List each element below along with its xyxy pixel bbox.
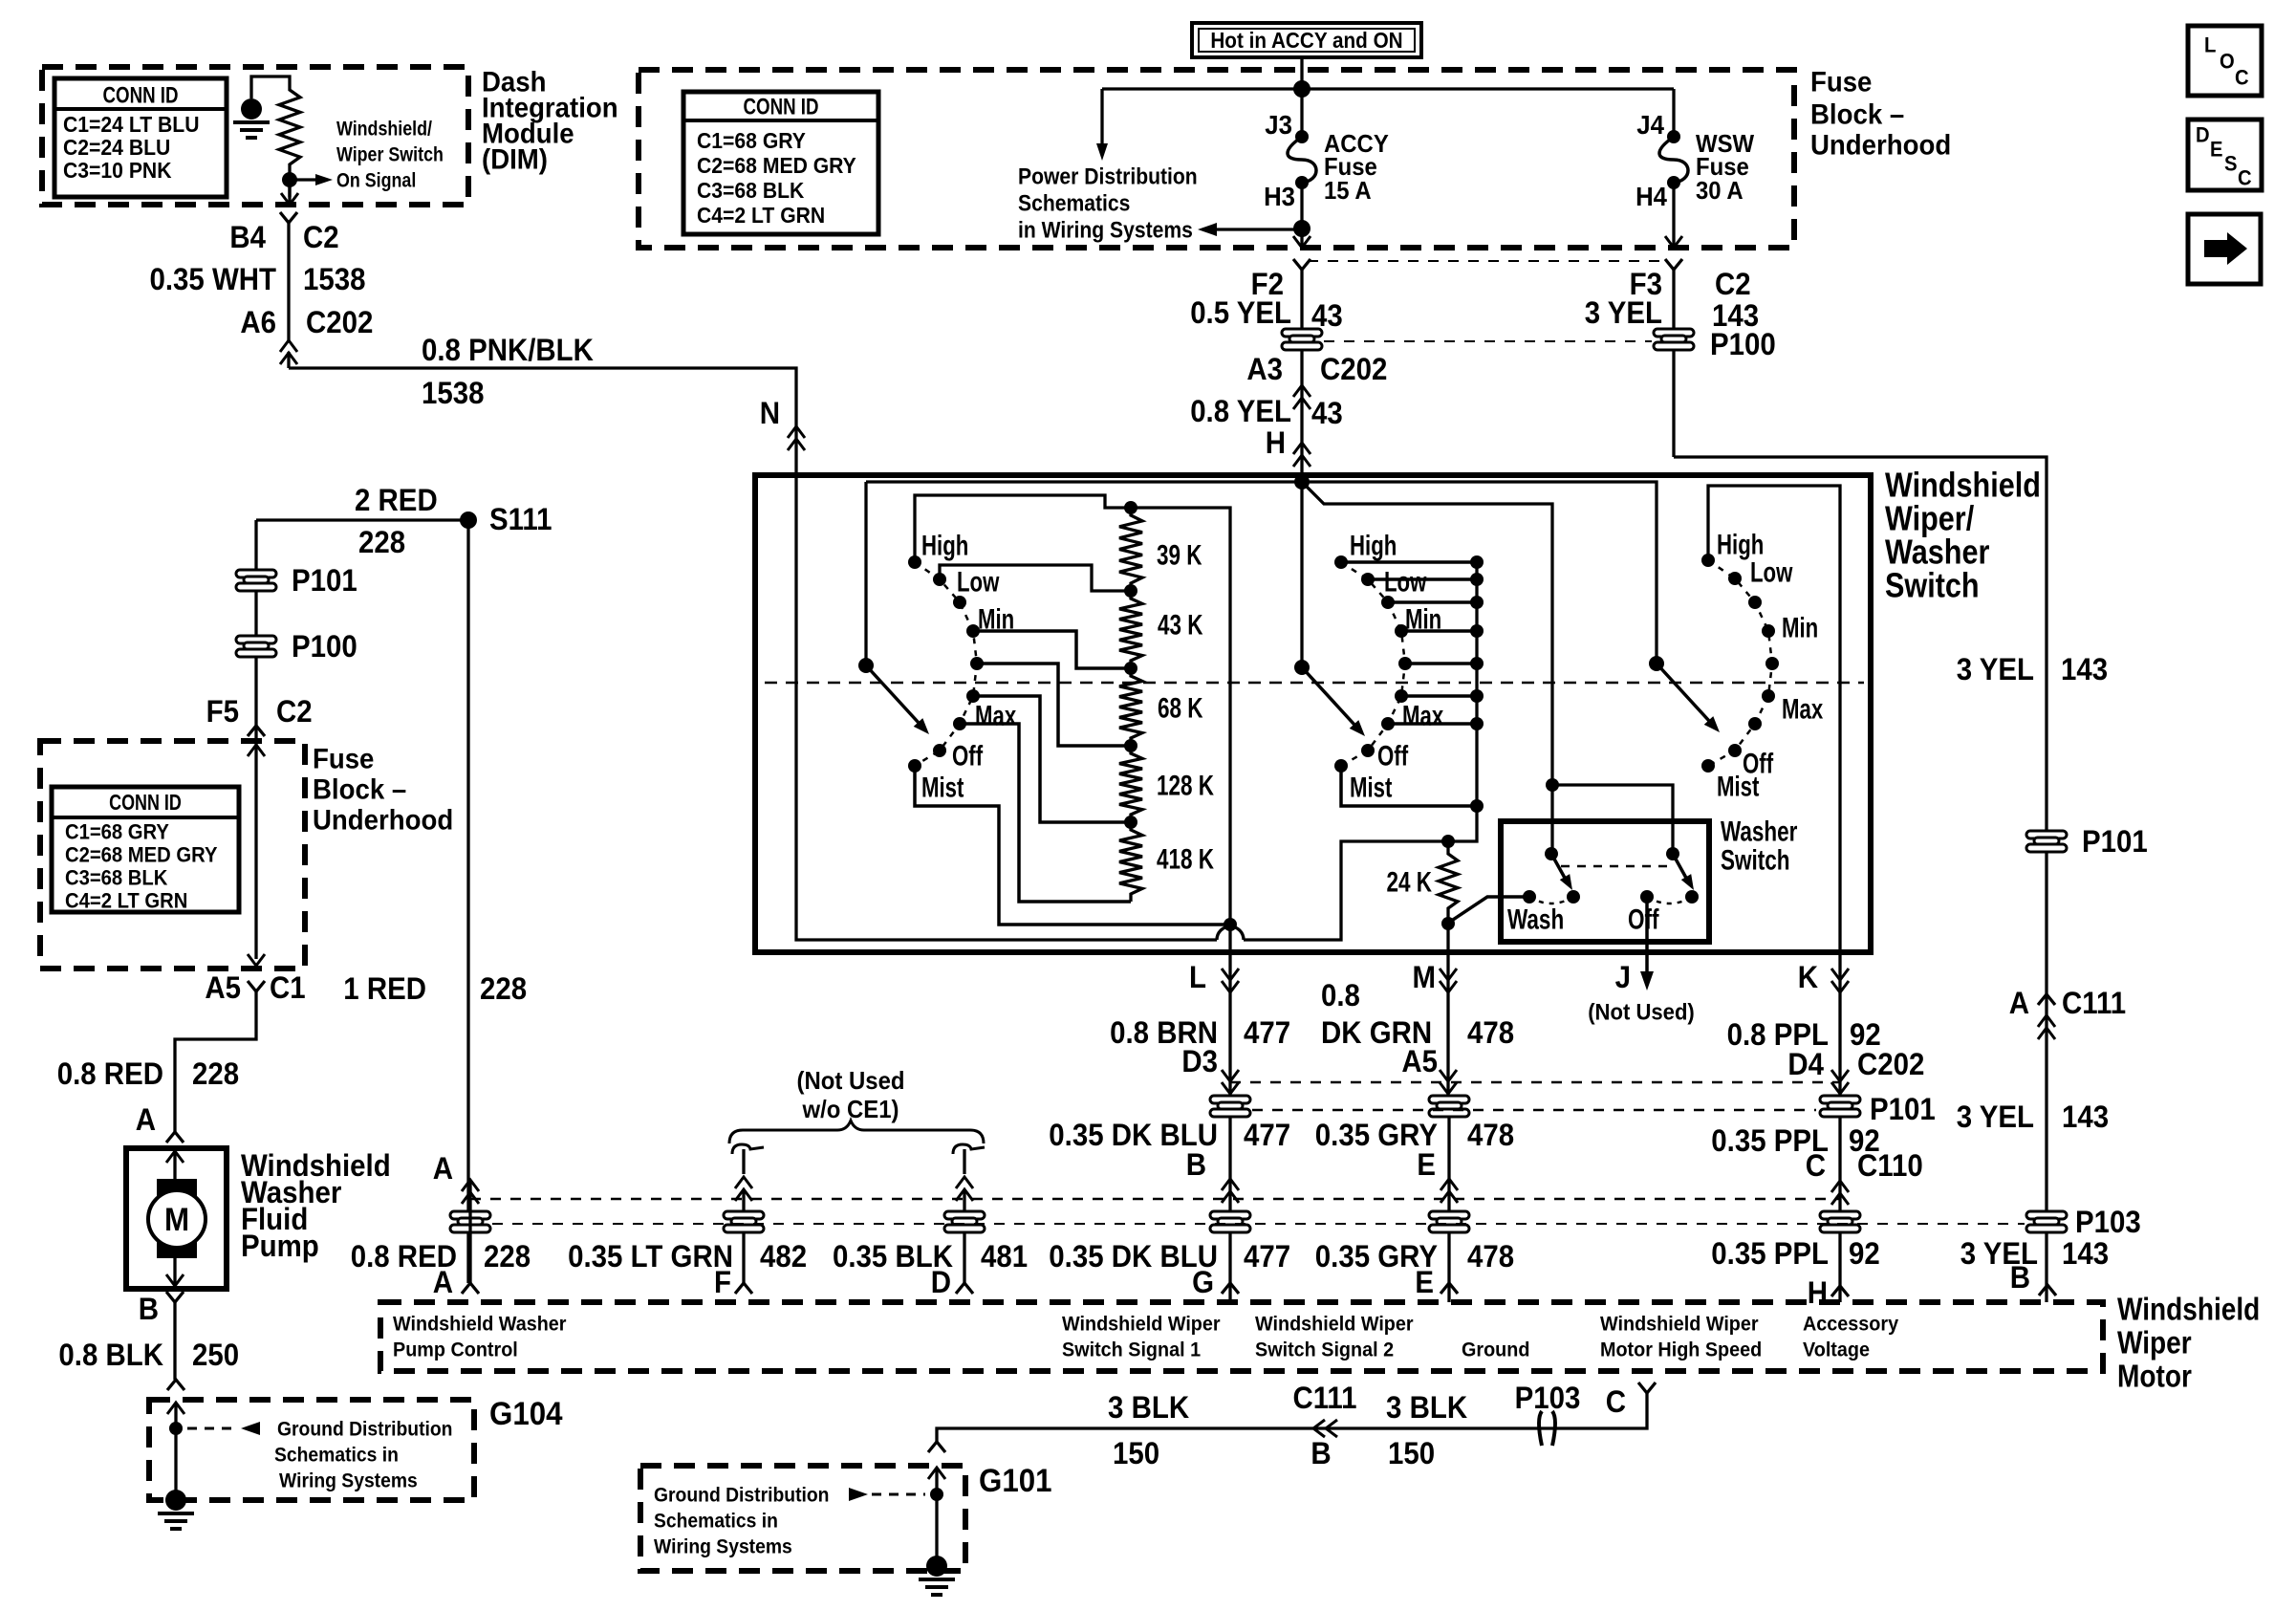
double chevron at switch entry H	[1293, 443, 1310, 454]
svg-text:A: A	[136, 1102, 156, 1137]
svg-text:G101: G101	[979, 1463, 1052, 1499]
svg-text:477: 477	[1244, 1118, 1290, 1152]
svg-text:C202: C202	[306, 305, 373, 339]
svg-text:(Not Used: (Not Used	[797, 1066, 905, 1095]
arrow to On Signal label	[290, 178, 319, 181]
grommet P103 G wire	[1210, 1211, 1250, 1232]
svg-text:P100: P100	[292, 629, 357, 664]
wire A washer pump between rows	[468, 1180, 471, 1283]
washer contact right mid	[1685, 890, 1699, 903]
fork B at motor box	[2039, 1285, 2056, 1295]
svg-text:Pump Control: Pump Control	[393, 1339, 518, 1361]
svg-text:E: E	[1415, 1265, 1434, 1299]
svg-text:Wiring Systems: Wiring Systems	[654, 1535, 792, 1557]
double chevron C202 mate	[1293, 385, 1310, 397]
svg-text:O: O	[2220, 50, 2235, 74]
svg-text:Max: Max	[1402, 701, 1443, 732]
svg-text:C1=68 GRY: C1=68 GRY	[65, 820, 169, 844]
svg-text:Off: Off	[1377, 741, 1409, 773]
svg-text:High: High	[1350, 531, 1397, 562]
dashed pointer left arrow G104	[187, 1427, 237, 1430]
wire pole feed rotary 1	[864, 482, 867, 665]
svg-text:P100: P100	[1710, 327, 1776, 361]
svg-text:1538: 1538	[422, 376, 485, 410]
svg-text:Wiper Switch: Wiper Switch	[336, 143, 444, 165]
contact bar dots rotary 2	[1470, 555, 1484, 569]
ground symbol G101	[926, 1556, 947, 1577]
svg-text:Schematics in: Schematics in	[654, 1510, 778, 1532]
svg-text:Switch Signal 1: Switch Signal 1	[1062, 1339, 1201, 1361]
svg-text:1 RED: 1 RED	[343, 971, 426, 1006]
svg-text:P101: P101	[2082, 824, 2148, 859]
wire ladder top to L bar	[1131, 508, 1230, 952]
diagonal to washer feed	[1302, 482, 1552, 854]
Fuse Block Underhood dashed box (left)	[40, 741, 305, 969]
svg-text:M: M	[1413, 960, 1437, 994]
resistor 43 K	[1119, 591, 1142, 668]
svg-text:B: B	[1310, 1436, 1331, 1470]
svg-text:P101: P101	[1870, 1092, 1936, 1126]
CONN ID table (fuse block left)	[52, 787, 239, 912]
svg-text:C3=10 PNK: C3=10 PNK	[63, 158, 172, 183]
svg-text:Mist: Mist	[1350, 773, 1392, 804]
dashed line P103 row	[492, 1223, 2025, 1225]
junction dot H bus	[1294, 474, 1310, 490]
svg-text:S: S	[2224, 152, 2238, 176]
grommet P101 left	[236, 570, 276, 591]
wire resistor to node	[288, 172, 291, 197]
svg-text:C2: C2	[303, 220, 339, 254]
washer contact Off	[1640, 890, 1654, 903]
wire lower contact to node4	[973, 696, 1131, 822]
svg-text:L: L	[1189, 960, 1206, 994]
hop over L wire	[1217, 926, 1244, 940]
chevrons C111	[2038, 1015, 2055, 1027]
node dot 4	[1124, 816, 1137, 829]
svg-text:Wash: Wash	[1507, 904, 1564, 936]
F stub wire	[742, 1149, 745, 1174]
svg-text:Washer: Washer	[1721, 816, 1798, 848]
svg-text:3 BLK: 3 BLK	[1386, 1390, 1467, 1425]
svg-text:C2=68 MED GRY: C2=68 MED GRY	[697, 153, 856, 178]
dashed line C2 between F2 and F3	[1308, 260, 1668, 262]
resistor 418 K	[1119, 822, 1142, 902]
arrow left to schematics label	[1206, 228, 1302, 230]
svg-text:Wiring Systems: Wiring Systems	[279, 1469, 418, 1491]
svg-text:C2=68 MED GRY: C2=68 MED GRY	[65, 843, 218, 867]
svg-text:Pump: Pump	[241, 1229, 319, 1263]
svg-text:B4: B4	[229, 220, 266, 254]
svg-text:F5: F5	[206, 694, 239, 729]
washer switch box	[1501, 821, 1709, 942]
arrow into fuse block F5	[248, 745, 265, 756]
wire F3 to P100	[1672, 270, 1675, 329]
svg-text:P103: P103	[1515, 1381, 1581, 1415]
svg-text:478: 478	[1467, 1239, 1514, 1274]
wire Max to ladder bottom	[960, 724, 1131, 902]
dashed line C110 row	[470, 1198, 1840, 1201]
resistor 39 K	[1119, 508, 1142, 591]
svg-text:Motor High Speed: Motor High Speed	[1600, 1339, 1762, 1361]
ground symbol G104	[165, 1490, 186, 1511]
fork below DIM (C2 pin B4)	[280, 212, 297, 223]
junction 24K top	[1441, 835, 1455, 848]
wire Hot box to J3	[1300, 57, 1303, 137]
svg-text:Max: Max	[975, 701, 1016, 732]
junction dot H3	[1293, 220, 1310, 237]
double chevron C111 pointing left	[1313, 1420, 1325, 1437]
svg-text:Windshield: Windshield	[2117, 1292, 2260, 1327]
svg-text:0.8 YEL: 0.8 YEL	[1190, 394, 1291, 428]
svg-text:150: 150	[1388, 1436, 1435, 1470]
ground symbol inside DIM	[241, 98, 262, 120]
fork H at motor box	[1831, 1286, 1849, 1296]
svg-text:C: C	[2235, 66, 2249, 90]
svg-text:482: 482	[760, 1239, 807, 1274]
svg-text:H3: H3	[1264, 182, 1295, 211]
wire M output	[1446, 916, 1449, 952]
svg-text:250: 250	[192, 1338, 239, 1372]
svg-text:3 YEL: 3 YEL	[1585, 295, 1662, 330]
rotary switch 3 (high speed) pole	[1649, 656, 1664, 671]
svg-text:C4=2 LT GRN: C4=2 LT GRN	[65, 889, 187, 913]
wire N inside switch box	[796, 475, 1217, 940]
grommet P101 right side	[2026, 831, 2067, 852]
fork F3 below fuse block	[1665, 259, 1682, 270]
G104 dashed box	[149, 1400, 474, 1500]
wire H3 down	[1300, 183, 1303, 236]
grommet P100 on F2 wire	[1300, 329, 1303, 350]
junction dot G104	[169, 1422, 183, 1435]
D stub wire	[963, 1149, 965, 1174]
svg-text:A5: A5	[1401, 1044, 1438, 1078]
D stub below	[963, 1233, 965, 1283]
svg-text:C1: C1	[270, 970, 306, 1005]
svg-text:G104: G104	[489, 1396, 563, 1432]
svg-text:43: 43	[1311, 396, 1343, 430]
svg-text:15 A: 15 A	[1324, 176, 1372, 205]
svg-text:Schematics: Schematics	[1018, 190, 1130, 216]
Dash Integration Module (DIM) dashed box	[42, 67, 468, 205]
svg-text:143: 143	[2062, 1099, 2109, 1134]
wire B4 to C202	[287, 223, 290, 340]
wire L output	[1228, 952, 1231, 1101]
wire Mist rotary2 to bar	[1341, 766, 1477, 806]
svg-text:C: C	[1606, 1384, 1626, 1419]
fork at pump terminal A	[166, 1132, 184, 1143]
arrow at fuse block exit F2	[1293, 236, 1310, 248]
svg-text:C4=2 LT GRN: C4=2 LT GRN	[697, 203, 825, 228]
fork at G104	[167, 1380, 184, 1390]
washer dashed link	[1561, 865, 1673, 868]
svg-text:A5: A5	[205, 970, 241, 1005]
svg-text:3 YEL: 3 YEL	[1957, 1099, 2034, 1134]
arrow into G104	[167, 1403, 184, 1414]
grommet P103 on pump control wire	[450, 1211, 490, 1232]
chevrons washer pump A	[462, 1180, 479, 1191]
grommet P103 E wire	[1429, 1211, 1469, 1232]
wire Min to node2	[973, 631, 1131, 668]
svg-text:0.35 LT GRN: 0.35 LT GRN	[568, 1239, 733, 1274]
LOC icon box	[2188, 26, 2262, 96]
junction 24K bottom	[1441, 917, 1455, 930]
svg-text:Windshield Wiper: Windshield Wiper	[1600, 1313, 1759, 1336]
node dot 3	[1124, 739, 1137, 752]
rotary switch 3 (high speed) contact arc	[1708, 560, 1772, 766]
G101 dashed box	[640, 1466, 965, 1571]
wire S111 horizontal 2 RED	[256, 518, 468, 521]
svg-text:CONN ID: CONN ID	[744, 94, 819, 120]
svg-text:L: L	[2204, 33, 2216, 57]
svg-text:CONN ID: CONN ID	[109, 790, 182, 815]
junction L bar bottom	[1224, 918, 1237, 931]
rotary switch 1 (resistor ladder) contact arc	[915, 562, 977, 766]
svg-text:477: 477	[1244, 1015, 1290, 1050]
svg-text:Max: Max	[1782, 694, 1823, 726]
wire K output below box	[1838, 952, 1841, 1101]
svg-text:Motor: Motor	[2117, 1359, 2192, 1394]
svg-text:228: 228	[484, 1239, 531, 1274]
svg-text:Ground Distribution: Ground Distribution	[277, 1418, 453, 1440]
wire K between rows	[1838, 1117, 1841, 1302]
chevrons on N wire	[788, 426, 805, 438]
svg-text:C: C	[1806, 1148, 1826, 1183]
svg-text:P103: P103	[2075, 1205, 2141, 1239]
chevrons up G row	[1222, 1179, 1239, 1190]
wire M between rows	[1447, 1117, 1450, 1302]
inline connector P103 on ground wire	[1539, 1411, 1555, 1446]
wire J not used	[1645, 897, 1649, 973]
svg-text:Power Distribution: Power Distribution	[1018, 163, 1198, 189]
Hot in ACCY and ON box	[1192, 23, 1421, 57]
chevrons D3	[1222, 1082, 1239, 1094]
svg-text:Schematics in: Schematics in	[274, 1444, 399, 1466]
chevrons A5	[1440, 1082, 1457, 1094]
detent dashed line across switch	[765, 682, 1864, 685]
dashed line P100 row	[1324, 340, 1652, 342]
svg-text:High: High	[921, 531, 968, 562]
svg-text:Fuse: Fuse	[313, 744, 374, 775]
svg-text:Underhood: Underhood	[313, 805, 453, 837]
svg-text:Block –: Block –	[1810, 99, 1904, 131]
F stub below	[742, 1233, 745, 1283]
svg-text:N: N	[760, 396, 780, 430]
windshield washer fluid pump box	[126, 1148, 227, 1289]
node dot 1	[1124, 584, 1137, 598]
svg-text:C3=68 BLK: C3=68 BLK	[697, 178, 805, 203]
svg-text:Off: Off	[1628, 904, 1659, 936]
washer left dashed arc	[1529, 897, 1573, 903]
arrow into G101	[928, 1468, 945, 1479]
svg-text:A3: A3	[1246, 352, 1283, 386]
forward arrow icon box	[2188, 214, 2261, 284]
pump motor circle M	[148, 1190, 206, 1248]
svg-text:92: 92	[1849, 1236, 1880, 1271]
svg-text:J4: J4	[1636, 110, 1664, 140]
svg-text:A: A	[433, 1265, 453, 1299]
svg-text:K: K	[1798, 960, 1818, 994]
svg-text:B: B	[2010, 1260, 2030, 1295]
dashed line C202 row	[1230, 1081, 1840, 1084]
svg-text:Low: Low	[957, 567, 1000, 599]
DESC icon box	[2188, 120, 2262, 190]
arrow at fuse block exit F3	[1665, 236, 1682, 248]
pump brushes	[157, 1179, 197, 1198]
junction dot bus	[1293, 80, 1310, 98]
dashed pointer right arrow G101	[872, 1493, 925, 1496]
contact rung wires rotary 2	[1341, 560, 1477, 564]
svg-text:S111: S111	[489, 502, 552, 536]
chevrons D4	[1831, 1082, 1849, 1094]
svg-text:143: 143	[2061, 652, 2108, 686]
svg-text:On Signal: On Signal	[336, 169, 416, 191]
fuse ACCY 15A (J3-H3)	[1295, 130, 1309, 143]
wire pump B to G104	[173, 1302, 176, 1380]
wire L between rows	[1228, 1117, 1231, 1302]
svg-text:30 A: 30 A	[1696, 176, 1744, 205]
washer toggle right contact top	[1666, 847, 1679, 860]
washer toggle right arm arrow	[1673, 854, 1687, 880]
grommet P100 on F3 wire	[1672, 350, 1675, 457]
svg-text:143: 143	[2062, 1236, 2109, 1271]
resistor 128 K	[1119, 746, 1142, 822]
svg-text:C2=24 BLU: C2=24 BLU	[63, 135, 170, 160]
junction dot washer feed split	[1546, 778, 1559, 792]
svg-text:Wiper: Wiper	[2117, 1325, 2192, 1361]
grommet P103 right side	[2026, 1211, 2067, 1232]
svg-text:68 K: 68 K	[1158, 693, 1203, 725]
svg-text:J: J	[1615, 960, 1631, 994]
svg-text:39 K: 39 K	[1157, 540, 1202, 572]
washer toggle left contact top	[1545, 847, 1558, 860]
windshield wiper/washer switch box	[755, 475, 1871, 952]
svg-text:E: E	[2210, 138, 2223, 162]
washer contact left mid	[1567, 890, 1580, 903]
svg-text:D4: D4	[1787, 1047, 1824, 1081]
svg-text:3 BLK: 3 BLK	[1108, 1390, 1189, 1425]
chevrons L below box	[1222, 981, 1239, 992]
fork G at motor box	[1222, 1283, 1239, 1294]
svg-text:0.35 PPL: 0.35 PPL	[1711, 1236, 1829, 1271]
washer toggle left arm arrow	[1551, 854, 1566, 880]
svg-text:481: 481	[981, 1239, 1028, 1274]
svg-text:P101: P101	[292, 563, 357, 598]
svg-text:CONN ID: CONN ID	[103, 82, 179, 108]
svg-text:Low: Low	[1384, 567, 1427, 599]
svg-text:H4: H4	[1635, 182, 1667, 211]
wire F2 to C202	[1300, 270, 1303, 329]
windshield wiper motor dashed box	[380, 1302, 2103, 1371]
resistor 24 K	[1446, 841, 1449, 846]
svg-text:0.8 RED: 0.8 RED	[57, 1056, 163, 1091]
arrow at fuse block exit A5	[248, 954, 265, 966]
svg-text:D: D	[2196, 123, 2210, 147]
svg-text:Ground: Ground	[1462, 1339, 1529, 1361]
rotary switch 2 (switch signal) contact arc	[1341, 562, 1405, 766]
node dot 2	[1124, 662, 1137, 675]
svg-text:228: 228	[480, 971, 527, 1006]
svg-text:(Not Used): (Not Used)	[1588, 999, 1695, 1025]
grommet P103 D wire	[944, 1211, 985, 1232]
wire down to P101	[254, 520, 257, 959]
brace over F and D	[729, 1121, 984, 1143]
svg-text:D: D	[931, 1265, 951, 1299]
svg-text:E: E	[1417, 1147, 1436, 1182]
wire below C202	[1300, 350, 1303, 475]
svg-text:C202: C202	[1857, 1047, 1924, 1081]
svg-text:Block –: Block –	[313, 774, 406, 806]
wire Low to node1	[940, 565, 1131, 591]
wire M output below box	[1446, 952, 1449, 1101]
svg-text:228: 228	[358, 525, 405, 559]
diagonal 24K to Wash contact	[1450, 897, 1529, 922]
svg-text:Mist: Mist	[921, 773, 964, 804]
svg-text:C2: C2	[1715, 267, 1751, 301]
chevrons M below box	[1440, 981, 1457, 992]
svg-text:Underhood: Underhood	[1810, 130, 1951, 162]
svg-text:G: G	[1192, 1265, 1214, 1299]
svg-text:C111: C111	[1292, 1381, 1356, 1415]
svg-text:(DIM): (DIM)	[482, 144, 548, 176]
wire N horizontal tail	[1244, 562, 1477, 940]
svg-text:B: B	[1186, 1147, 1206, 1182]
svg-text:Fuse: Fuse	[1810, 67, 1872, 98]
fork A at motor box	[462, 1283, 479, 1294]
svg-text:Off: Off	[952, 741, 984, 773]
label Ground fork wire	[937, 1393, 1647, 1442]
svg-text:Accessory: Accessory	[1803, 1313, 1898, 1336]
CONN ID table (DIM)	[54, 78, 227, 197]
wire Mist to L bar	[915, 766, 1230, 925]
svg-text:1538: 1538	[303, 262, 366, 296]
svg-text:Windshield Washer: Windshield Washer	[393, 1313, 567, 1336]
svg-text:J3: J3	[1265, 110, 1292, 140]
wire H pole rotary 2	[1300, 482, 1303, 667]
svg-text:Windshield Wiper: Windshield Wiper	[1062, 1313, 1221, 1336]
svg-text:H: H	[1266, 425, 1286, 460]
grommet P101 L wire	[1210, 1096, 1250, 1117]
rotary switch 2 (switch signal) pole	[1294, 660, 1310, 675]
grommet P100 left	[236, 636, 276, 657]
pump lead arrows	[166, 1151, 184, 1163]
grommet P101 K wire	[1820, 1096, 1860, 1117]
wire ground to resistor	[251, 76, 290, 98]
svg-text:in Wiring Systems: in Wiring Systems	[1018, 217, 1193, 243]
washer right dashed arc	[1647, 897, 1692, 903]
svg-text:Windshield Wiper: Windshield Wiper	[1255, 1313, 1414, 1336]
svg-text:C110: C110	[1857, 1148, 1923, 1183]
svg-text:C2: C2	[276, 694, 313, 729]
fork E at motor box	[1440, 1283, 1458, 1294]
svg-text:0.8 BLK: 0.8 BLK	[58, 1338, 163, 1372]
svg-text:Low: Low	[1750, 557, 1793, 589]
dashed line P101 row	[1252, 1109, 1816, 1112]
svg-text:3 YEL: 3 YEL	[1957, 652, 2034, 686]
fuse WSW 30A (J4-H4)	[1672, 89, 1675, 137]
svg-text:D3: D3	[1181, 1044, 1218, 1078]
ladder top junction	[1124, 501, 1137, 514]
svg-text:C1=68 GRY: C1=68 GRY	[697, 128, 806, 153]
fork at G101	[928, 1442, 945, 1452]
fork C below motor box	[1638, 1382, 1656, 1393]
svg-text:43 K: 43 K	[1158, 610, 1203, 642]
chevrons K below box	[1831, 981, 1849, 992]
Fuse Block Underhood dashed box (top)	[639, 70, 1794, 248]
svg-text:128 K: 128 K	[1157, 771, 1214, 802]
wire High to ladder top	[915, 495, 1131, 562]
svg-text:A6: A6	[240, 305, 276, 339]
wire S111 down 1 RED	[466, 520, 469, 1283]
